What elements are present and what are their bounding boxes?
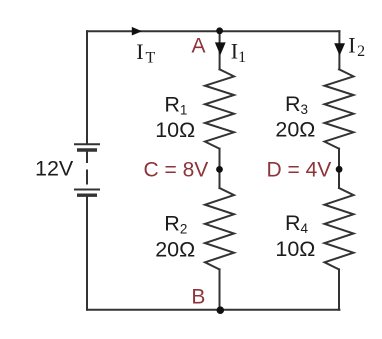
svg-text:10Ω: 10Ω xyxy=(155,118,195,142)
svg-text:B: B xyxy=(191,285,205,308)
svg-text:D = 4V: D = 4V xyxy=(267,158,332,181)
svg-text:C = 8V: C = 8V xyxy=(144,158,209,181)
svg-text:20Ω: 20Ω xyxy=(155,237,195,261)
svg-text:12V: 12V xyxy=(35,157,74,181)
svg-text:A: A xyxy=(192,34,206,57)
svg-text:10Ω: 10Ω xyxy=(275,237,315,261)
svg-text:20Ω: 20Ω xyxy=(275,118,315,142)
